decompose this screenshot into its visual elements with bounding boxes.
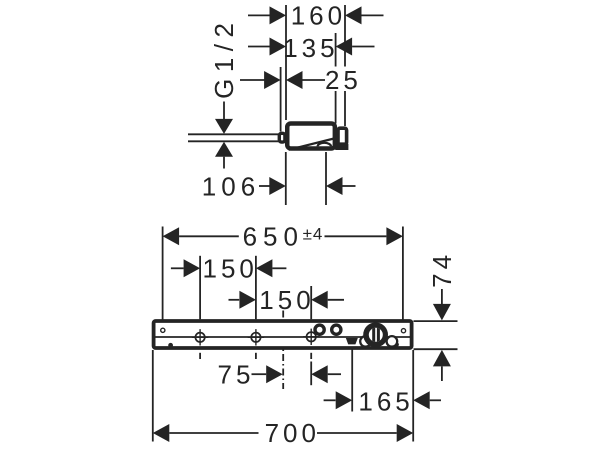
svg-text:75: 75 [218, 360, 255, 390]
extension line 700-right (x=413.2) [412, 350, 414, 442]
thermostat knob [363, 322, 388, 347]
bar middle line [153, 336, 412, 338]
extension line 650-right (x=402.9) [402, 227, 404, 327]
crosshair screw 3 [303, 329, 319, 345]
extension line body-left (x=286) [285, 5, 287, 120]
extension line connector-right (x=345) [344, 5, 346, 126]
extension line screw2 (x=255.9) [255, 256, 257, 359]
wall connector stub [338, 128, 347, 144]
pipe line lower [188, 140, 279, 142]
valve body side view [287, 123, 335, 148]
arc detail inside body [318, 143, 331, 147]
dimension 700 [153, 418, 413, 448]
crosshair screw 1 [192, 329, 208, 345]
dimension 165 [324, 386, 441, 416]
svg-text:150: 150 [259, 285, 314, 315]
dimension 150 second [229, 285, 345, 315]
extension line screw3 (x=311.2) [310, 286, 312, 385]
drain dot bottom-left [168, 343, 173, 348]
dimension 106 [202, 172, 356, 202]
dimension 75 [218, 360, 341, 390]
extension line bump-left (x=280.6) [280, 67, 282, 132]
dimension 74 vertical [427, 251, 457, 381]
svg-text:150: 150 [203, 254, 258, 284]
dimension 650 +-4 [163, 222, 403, 252]
screw hole right [401, 329, 405, 333]
crosshair screw 2 [248, 329, 264, 345]
pipe line upper [188, 133, 279, 135]
svg-text:650: 650 [243, 222, 304, 252]
dimension 135 [248, 33, 375, 63]
svg-text:700: 700 [265, 418, 320, 448]
extension line 700-left (x=152.8) [152, 350, 154, 442]
extension line 74-top [414, 320, 458, 322]
extension line below body left (x=285.8) [285, 152, 287, 205]
svg-text:160: 160 [291, 1, 346, 31]
diagonal lever inside body [289, 139, 334, 150]
select button 1 [315, 325, 324, 334]
extension line 74-bottom [414, 348, 458, 350]
shower bar front view [154, 321, 412, 348]
supply bump left [279, 133, 285, 142]
extension line body-right (x=335.6) [335, 33, 337, 124]
centerline (x=283.2) [282, 311, 284, 390]
knob ear right [387, 336, 398, 347]
dimension G1/2 vertical [209, 17, 239, 169]
select button 2 [332, 325, 341, 334]
svg-text:G1/2: G1/2 [209, 17, 239, 99]
svg-text:135: 135 [283, 33, 338, 63]
extension line spout (x=352.2) [351, 350, 353, 412]
drain dot bottom-right [395, 343, 399, 347]
extension line 650-left (x=162.6) [162, 227, 164, 327]
dimension 150 first [171, 254, 287, 284]
svg-text:106: 106 [202, 172, 260, 202]
spout trapezoid [346, 338, 358, 345]
svg-text:±4: ±4 [303, 225, 324, 244]
dimension 25 [240, 65, 362, 95]
screw hole left [161, 328, 165, 332]
dimension 160 [248, 1, 384, 31]
svg-text:165: 165 [358, 386, 413, 416]
svg-text:25: 25 [325, 65, 362, 95]
knob ear left [360, 336, 371, 347]
extension line below body right (x=326) [325, 152, 327, 205]
svg-text:74: 74 [427, 251, 457, 288]
extension line screw1 (x=200.1) [199, 256, 201, 359]
